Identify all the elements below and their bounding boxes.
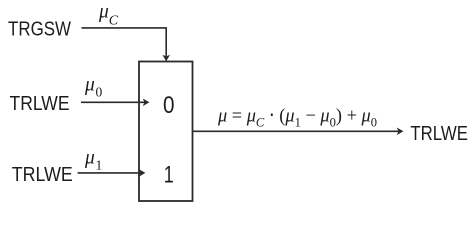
mux port label 1 xyxy=(164,161,174,188)
mux box U1 xyxy=(139,62,193,202)
svg-text:μ0: μ0 xyxy=(84,74,102,99)
wire: mu1 input line into mux port 1 xyxy=(78,169,146,177)
svg-text:TRLWE: TRLWE xyxy=(10,92,70,115)
mux port label 0 xyxy=(163,92,175,119)
svg-text:μ1: μ1 xyxy=(84,148,102,173)
input label TRGSW xyxy=(8,18,72,41)
svg-text:μ = μC ⋅ (μ1 − μ0) + μ0: μ = μC ⋅ (μ1 − μ0) + μ0 xyxy=(217,105,377,129)
svg-text:μC: μC xyxy=(98,2,119,29)
net label mu0 xyxy=(84,74,102,99)
net label mu1 xyxy=(84,148,102,173)
wire: output line from mux to TRLWE xyxy=(193,128,404,136)
wire: mu0 input line into mux port 0 xyxy=(81,99,149,107)
svg-text:TRLWE: TRLWE xyxy=(410,122,468,145)
wire: TRGSW select line into mux top xyxy=(82,28,171,62)
input label TRLWE (input 1) xyxy=(12,163,73,186)
svg-text:0: 0 xyxy=(163,92,175,119)
svg-text:TRLWE: TRLWE xyxy=(12,163,73,186)
input label TRLWE (input 0) xyxy=(10,92,70,115)
svg-text:1: 1 xyxy=(164,161,174,188)
net label: output equation mu = muC (mu1 - mu0) + mu0 xyxy=(217,105,377,129)
output label TRLWE xyxy=(410,122,468,145)
svg-text:TRGSW: TRGSW xyxy=(8,18,72,41)
net label muC xyxy=(98,2,119,29)
